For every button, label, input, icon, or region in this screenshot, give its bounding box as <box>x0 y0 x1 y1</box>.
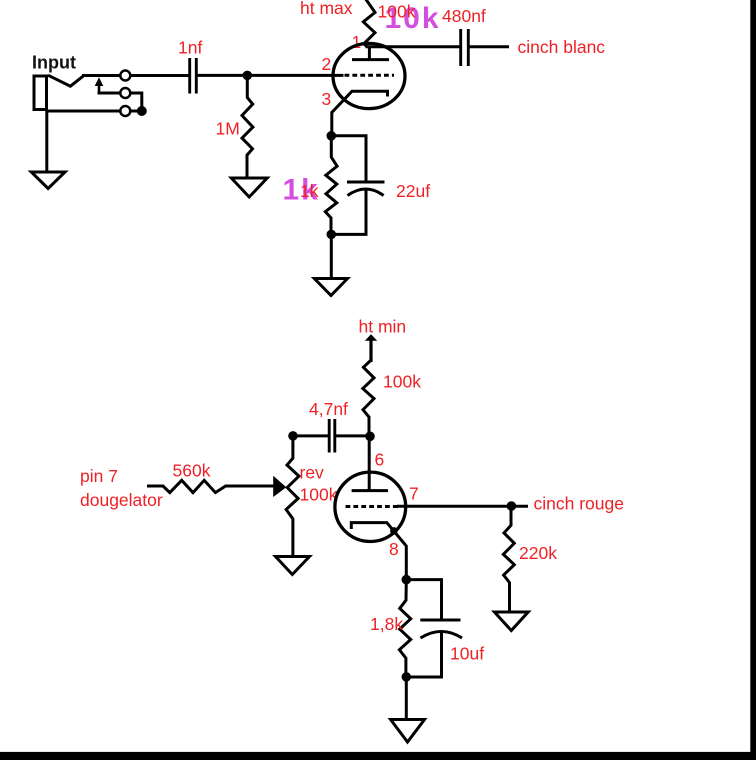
tube V1 envelope <box>333 43 405 108</box>
wire cathode node to C3 branch <box>331 136 366 182</box>
svg-text:3: 3 <box>322 89 332 109</box>
junction dot sleeve <box>137 106 147 116</box>
svg-text:pin 7: pin 7 <box>80 466 118 486</box>
capacitor C3 22uf <box>347 181 385 184</box>
tube V2 envelope <box>335 472 406 541</box>
wire sleeve line <box>46 110 142 113</box>
tube V2 cathode <box>351 523 406 581</box>
svg-text:1nf: 1nf <box>178 38 202 58</box>
svg-text:4,7nf: 4,7nf <box>309 399 348 419</box>
svg-text:220k: 220k <box>519 543 557 563</box>
resistor R2 100k plate load <box>363 0 375 47</box>
ground GND2 <box>231 178 267 197</box>
capacitor C4 4,7nf <box>328 419 331 453</box>
wire C3 bottom <box>331 190 366 234</box>
svg-text:1,8k: 1,8k <box>370 614 403 634</box>
junction dot R3 bottom <box>327 230 337 240</box>
potentiometer R5 rev 100k <box>286 436 299 557</box>
svg-text:8: 8 <box>389 539 399 559</box>
tube V1 grid <box>345 74 395 77</box>
svg-text:6: 6 <box>375 450 385 470</box>
svg-text:480nf: 480nf <box>442 6 486 26</box>
wire to GND6 <box>405 677 408 720</box>
wire signal to C1 <box>130 74 189 77</box>
svg-text:10uf: 10uf <box>450 644 484 664</box>
junction dot output node <box>507 501 517 511</box>
capacitor C2 480nf <box>459 29 462 66</box>
junction dot pot top <box>288 431 298 441</box>
connector J1 jack body <box>34 76 47 110</box>
svg-text:100k: 100k <box>300 485 338 505</box>
ground GND3 <box>314 279 347 296</box>
svg-text:22uf: 22uf <box>396 181 430 201</box>
svg-text:100k: 100k <box>383 372 421 392</box>
wire switch contact to arrow stem <box>98 92 121 95</box>
wire C1 to grid node <box>198 74 344 77</box>
jack contact circle switch <box>120 88 130 98</box>
capacitor C5 10uf <box>420 619 460 622</box>
svg-text:560k: 560k <box>173 461 211 481</box>
wire C2 to cinch blanc <box>470 45 510 48</box>
wire grid to output <box>397 505 528 508</box>
wire anode node to C2 <box>366 45 460 48</box>
ground GND1 <box>31 172 65 189</box>
wire C4 right <box>336 434 370 437</box>
black border bottom <box>0 752 756 760</box>
svg-text:ht min: ht min <box>359 317 407 337</box>
wire C4 left <box>293 434 328 437</box>
junction dot cathode node V2 <box>402 575 412 585</box>
jack contact circle sleeve <box>120 106 130 116</box>
ground GND4 pot <box>276 557 310 575</box>
dot cathode crosses envelope <box>390 527 398 535</box>
svg-text:1k: 1k <box>300 181 319 201</box>
ground GND6 <box>391 720 425 743</box>
resistor R7 220k <box>503 506 514 612</box>
wire tip contact to switch circle <box>82 74 121 77</box>
jack contact circle tip <box>120 71 130 81</box>
wire C5 top branch <box>406 580 441 620</box>
svg-text:cinch rouge: cinch rouge <box>534 494 624 514</box>
wire C5 bottom branch <box>406 633 441 677</box>
supply arrow ht min <box>369 340 372 363</box>
svg-text:cinch blanc: cinch blanc <box>518 37 606 57</box>
resistor R3 1k <box>325 136 337 236</box>
svg-text:dougelator: dougelator <box>80 490 163 510</box>
svg-text:Input: Input <box>32 53 76 73</box>
resistor R1 1M <box>242 75 253 178</box>
svg-text:rev: rev <box>300 463 325 483</box>
pot wiper arrow <box>273 476 286 497</box>
black border right <box>750 0 756 760</box>
tube V2 plate <box>352 489 388 492</box>
resistor R4 100k <box>363 361 374 438</box>
wire switch bend to sleeve dot <box>130 93 142 109</box>
resistor R8 1,8k <box>399 580 410 678</box>
ground GND5 220k <box>494 612 528 631</box>
svg-text:7: 7 <box>409 484 419 504</box>
svg-text:2: 2 <box>322 54 332 74</box>
svg-text:1: 1 <box>352 32 362 52</box>
switch arrow <box>98 84 101 93</box>
wire jack to ground <box>45 111 48 172</box>
wiper wire and resistor R6 560k <box>147 480 275 492</box>
capacitor C1 1nf <box>188 58 191 94</box>
svg-text:100k: 100k <box>378 2 416 22</box>
tube V1 cathode <box>332 91 388 137</box>
wire plate lead V2 <box>368 436 371 490</box>
junction dot R8 bottom <box>402 672 412 682</box>
junction dot grid node <box>243 71 253 81</box>
tube V2 grid <box>346 505 399 508</box>
wire to GND3 <box>330 234 333 278</box>
svg-text:ht max: ht max <box>300 0 353 18</box>
junction dot cathode node <box>327 131 337 141</box>
junction dot plate node V2 <box>365 432 375 442</box>
tube V1 plate <box>368 47 371 60</box>
jack tip spring contact <box>48 75 84 86</box>
svg-text:1M: 1M <box>216 119 240 139</box>
